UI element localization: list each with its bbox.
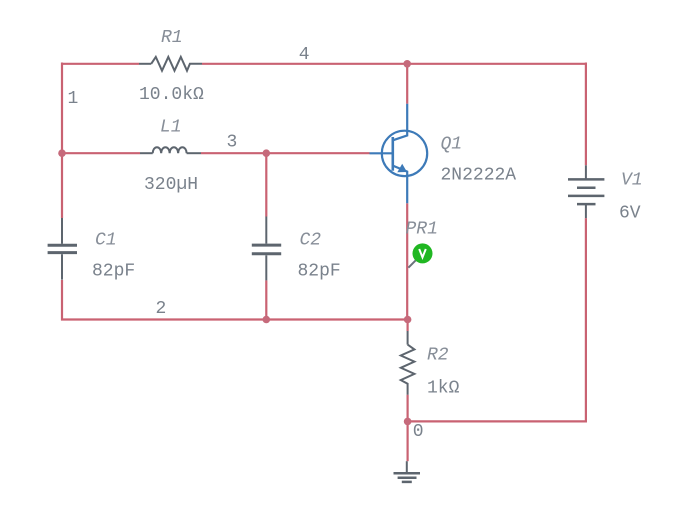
svg-text:82pF: 82pF	[92, 261, 135, 281]
wire C2 to node2	[265, 280, 267, 319]
battery V1	[568, 165, 604, 218]
wire node2 to R2	[407, 320, 409, 332]
resistor R2	[401, 331, 415, 395]
svg-text:Q1: Q1	[441, 134, 463, 154]
node junction dot node0	[404, 418, 412, 426]
capacitor C1	[48, 218, 77, 280]
svg-text:R1: R1	[161, 28, 183, 48]
node junction dot node3/C2	[263, 149, 271, 157]
capacitor C2	[252, 217, 281, 281]
svg-text:V1: V1	[621, 171, 643, 191]
wire node3 down to C2	[265, 153, 267, 216]
wire node4 top-left segment	[62, 63, 139, 65]
svg-text:82pF: 82pF	[298, 261, 341, 281]
wire node1 left vertical upper	[61, 63, 63, 219]
inductor L1	[140, 147, 201, 153]
svg-text:C2: C2	[300, 230, 322, 250]
probe PR1 tail	[408, 260, 415, 267]
wire Q1 emitter to node2	[406, 203, 408, 319]
svg-text:6V: 6V	[619, 204, 641, 224]
node junction dot at R1/collector	[403, 60, 411, 68]
wire node0 horizontal to V1	[408, 420, 587, 422]
svg-text:L1: L1	[160, 118, 182, 138]
svg-text:PR1: PR1	[406, 220, 438, 240]
wire node3 L1 to Q1 base	[201, 152, 370, 154]
svg-text:2: 2	[156, 299, 167, 319]
svg-text:R2: R2	[427, 346, 449, 366]
svg-text:4: 4	[299, 45, 310, 65]
wire node2 bottom horizontal	[61, 318, 408, 320]
probe PR1 body	[413, 243, 433, 263]
svg-text:C1: C1	[95, 230, 117, 250]
svg-text:1: 1	[68, 89, 79, 109]
wire node4 right vertical to V1	[585, 63, 587, 166]
svg-text:10.0kΩ: 10.0kΩ	[139, 85, 204, 105]
svg-text:320µH: 320µH	[144, 175, 198, 195]
node junction dot node2/R2	[404, 316, 412, 324]
wire V1 to node0	[585, 218, 587, 422]
transistor Q1	[370, 104, 428, 203]
node junction dot node1/L1	[58, 149, 66, 157]
wire node4 top-right segment	[202, 63, 587, 65]
wire node2 left vertical lower	[61, 280, 63, 321]
ground	[394, 461, 421, 482]
wire R2 to node0	[407, 395, 409, 422]
transistor Q1 emitter arrow	[397, 164, 407, 173]
resistor R1	[139, 57, 202, 71]
node junction dot C2/node2	[263, 316, 271, 324]
wire node4 to Q1 collector	[406, 64, 408, 104]
wire node1 to L1	[62, 152, 140, 154]
svg-text:1kΩ: 1kΩ	[427, 379, 460, 399]
svg-text:0: 0	[413, 422, 424, 442]
wire node0 to ground	[407, 421, 409, 461]
svg-text:3: 3	[227, 133, 238, 153]
probe PR1 V letter	[419, 249, 426, 257]
svg-text:2N2222A: 2N2222A	[441, 166, 517, 186]
